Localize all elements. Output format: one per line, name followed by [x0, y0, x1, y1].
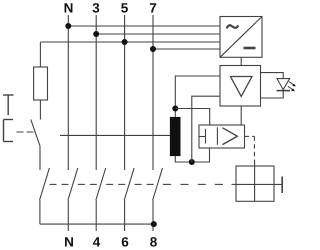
- wire winding top to amplifier: [175, 76, 220, 117]
- relay armature T bar: [281, 177, 283, 194]
- terminal label N bottom: [65, 237, 73, 246]
- terminal label 8 bottom: [150, 237, 157, 247]
- wire resistor to test switch: [39, 100, 41, 120]
- wire test return down: [39, 200, 41, 224]
- amplifier U2 box: [220, 66, 261, 107]
- test switch contact arm: [31, 120, 40, 147]
- junction node on 7: [150, 46, 156, 52]
- terminal label 4 bottom: [93, 237, 100, 246]
- wire test switch to test pole contact: [39, 146, 41, 170]
- threshold input element: [199, 129, 206, 144]
- dashed link test button to switch: [17, 131, 35, 133]
- terminal label 5 top: [121, 3, 128, 12]
- dashed trip linkage: [50, 183, 237, 185]
- wire tap 7 to rectifier: [153, 48, 220, 50]
- LED D1: [277, 79, 290, 91]
- wire pole 4 bottom vertical: [95, 200, 97, 231]
- pole contact 3: [96, 168, 106, 200]
- wire winding bottom to amplifier: [192, 96, 220, 162]
- rectifier AC tilde: [227, 25, 238, 28]
- threshold detector U3 box: [199, 125, 245, 148]
- wire winding top to threshold box top: [175, 109, 209, 126]
- trip relay K1 box: [236, 166, 274, 201]
- pole contact 7: [153, 168, 163, 200]
- amplifier triangle: [231, 77, 253, 97]
- terminal label N top: [65, 3, 73, 12]
- wire tap 3 to rectifier: [96, 33, 220, 35]
- wire LED bottom to amplifier: [261, 91, 284, 98]
- dashed trip command from threshold: [245, 136, 255, 160]
- terminal label 6 bottom: [122, 237, 129, 247]
- wire pole 3 top vertical: [95, 15, 97, 170]
- junction node winding bottom: [189, 159, 195, 165]
- wire pole N bottom vertical: [67, 200, 69, 231]
- terminal label 7 top: [150, 3, 156, 12]
- CT secondary winding W1: [170, 117, 181, 156]
- pole contact N: [68, 168, 78, 200]
- junction node on 8: [151, 221, 157, 227]
- wire tap N to rectifier: [68, 25, 220, 27]
- threshold greater-than symbol: [223, 128, 238, 145]
- wire pole 5 top vertical: [124, 15, 126, 170]
- rectifier DC minus: [244, 47, 256, 50]
- test button actuator T: [3, 95, 14, 115]
- resistor R test: [34, 67, 48, 100]
- wire pole 6 bottom vertical: [124, 200, 126, 231]
- rectifier U1 box: [220, 17, 262, 58]
- wire test resistor feed: [39, 42, 41, 67]
- wire amplifier to LED top: [261, 73, 284, 79]
- wire pole N top vertical: [67, 15, 69, 170]
- wire amplifier to threshold box: [240, 106, 242, 125]
- wire winding bottom: [175, 148, 209, 162]
- CT core line through poles: [60, 134, 171, 136]
- junction node on N: [65, 23, 71, 29]
- rectifier diagonal: [220, 17, 262, 58]
- junction node winding top: [172, 106, 178, 112]
- junction node on 5: [122, 39, 128, 45]
- wire rectifier to amplifier: [240, 57, 242, 65]
- relay actuator line horizontal: [236, 183, 282, 185]
- wire pole 7 top vertical: [152, 15, 154, 170]
- wire tap 5 to rectifier and test resistor: [40, 41, 220, 43]
- wire pole 8 bottom vertical: [152, 200, 154, 231]
- relay divider vertical: [254, 166, 256, 201]
- LED emission arrows: [288, 82, 296, 92]
- terminal label 3 top: [93, 3, 100, 13]
- test button bracket: [4, 120, 14, 142]
- pole contact test line: [40, 168, 50, 200]
- pole contact 5: [124, 168, 134, 200]
- wire test return horizontal to pole 8: [40, 223, 154, 225]
- wire trip stub into relay: [254, 161, 256, 167]
- junction node on 3: [93, 31, 99, 37]
- threshold level bar: [216, 127, 218, 145]
